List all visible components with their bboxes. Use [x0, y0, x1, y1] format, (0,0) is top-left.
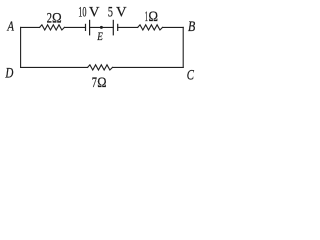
battery B2 5V short plate	[117, 24, 119, 30]
wire A to 2ohm	[21, 26, 40, 28]
wire right side B-C	[182, 27, 184, 67]
svg-text:B: B	[188, 19, 195, 35]
resistor R2 1ohm	[138, 25, 163, 30]
wire battery2 to 1ohm	[118, 26, 138, 28]
resistor R3 7ohm	[88, 65, 113, 70]
svg-text:Ω: Ω	[52, 10, 62, 26]
svg-text:A: A	[7, 19, 15, 34]
svg-text:Ω: Ω	[148, 9, 158, 25]
svg-text:C: C	[187, 67, 194, 83]
wire battery1 to battery2 through node E	[90, 26, 114, 28]
battery B1 10V long plate	[89, 20, 91, 34]
svg-text:E: E	[96, 31, 102, 43]
svg-text:10: 10	[78, 4, 86, 20]
svg-text:V: V	[116, 4, 127, 20]
wire 2ohm to battery1	[64, 26, 85, 28]
svg-text:V: V	[89, 4, 100, 20]
svg-text:Ω: Ω	[97, 75, 106, 91]
svg-text:D: D	[5, 65, 14, 81]
wire 7ohm to C	[113, 66, 184, 68]
wire left side A-D	[20, 27, 22, 67]
node E junction dot	[100, 26, 103, 29]
wire 1ohm to B	[163, 26, 184, 28]
wire bottom D to 7ohm	[21, 66, 88, 68]
resistor R1 2ohm	[40, 25, 65, 30]
svg-text:5: 5	[108, 4, 113, 20]
battery B2 5V long plate	[112, 20, 114, 34]
battery B1 10V short plate	[85, 24, 87, 30]
